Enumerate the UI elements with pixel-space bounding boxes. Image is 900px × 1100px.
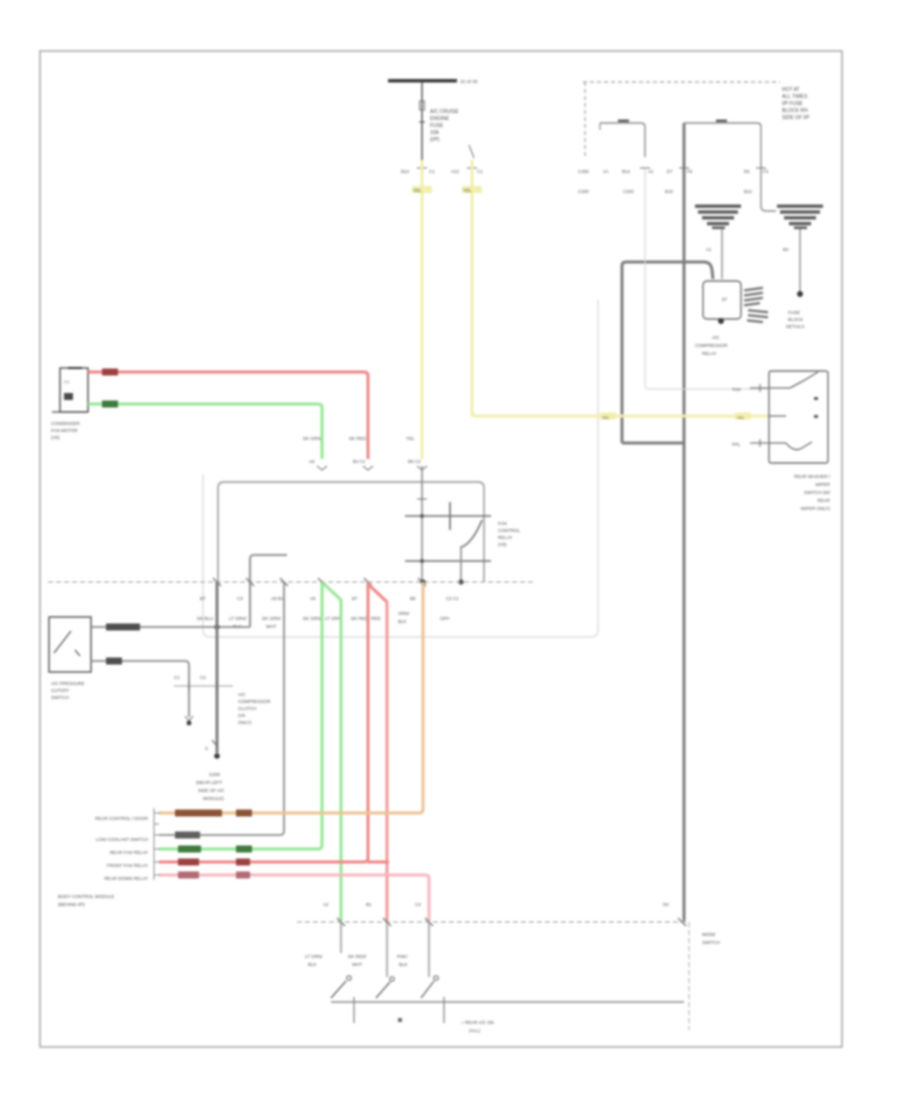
heater motor M1 box: [60, 368, 88, 412]
svg-text:ENGINE: ENGINE: [430, 116, 450, 122]
fuse F3 branch: [684, 123, 761, 157]
wire 1 riser: [250, 555, 287, 627]
bottom connector pin labels: [323, 902, 669, 907]
svg-text:A8 B1: A8 B1: [271, 596, 284, 601]
svg-text:S: S: [205, 746, 208, 751]
YEL label on wire 1: [412, 186, 432, 193]
compressor label: [238, 692, 271, 725]
relay contact rail 1: [405, 515, 491, 517]
svg-text:BLK: BLK: [399, 962, 408, 967]
green jog at C200: [324, 584, 341, 600]
svg-text:REAR: REAR: [817, 498, 830, 503]
svg-text:YEL: YEL: [737, 415, 745, 420]
BCM connector bracket: [153, 808, 155, 880]
thick gray trunk wire (vertical, full height): [683, 123, 686, 921]
svg-text:= REAR A/C ON: = REAR A/C ON: [461, 1020, 494, 1025]
svg-text:DETAILS: DETAILS: [786, 324, 804, 329]
row2 label block: [175, 832, 200, 839]
thick gray elbow wire to relay: [622, 262, 713, 443]
switch arms: [331, 981, 434, 998]
svg-text:WHT: WHT: [266, 624, 276, 629]
svg-text:C200: C200: [578, 189, 589, 194]
orange wire C200 to row1: [159, 582, 423, 813]
fuse F1 label: [430, 109, 459, 143]
svg-text:YEL: YEL: [602, 415, 610, 420]
stub tick: [759, 384, 761, 392]
svg-text:FUSE: FUSE: [430, 123, 444, 129]
svg-text:FUSE: FUSE: [788, 310, 800, 315]
svg-text:WIPER: WIPER: [815, 482, 831, 487]
svg-text:LOW COOLANT SWITCH: LOW COOLANT SWITCH: [96, 837, 148, 842]
wire 2 arrow: [185, 716, 193, 721]
svg-text:C3: C3: [415, 902, 421, 907]
svg-text:FRONT FAN RELAY: FRONT FAN RELAY: [107, 863, 148, 868]
stub tick: [759, 439, 761, 447]
svg-text:G200: G200: [209, 772, 221, 777]
YEL label on horizontal wire: [600, 413, 616, 420]
svg-text:D4: D4: [663, 902, 669, 907]
bottom wire color labels: [305, 954, 408, 967]
svg-text:CONDENSER: CONDENSER: [51, 421, 81, 426]
svg-text:B14: B14: [401, 169, 410, 174]
svg-text:A12: A12: [451, 169, 460, 174]
relay coil bar: [449, 502, 451, 530]
switch assembly right edge: [688, 922, 690, 1030]
svg-text:C2: C2: [200, 675, 206, 680]
wire 2 terminal dot: [187, 721, 192, 726]
svg-text:DK BLU: DK BLU: [197, 616, 213, 621]
motor pin tick: [68, 367, 82, 369]
wire to splice S1: [761, 157, 776, 211]
svg-text:(+): (+): [64, 379, 70, 384]
motor label: [51, 421, 81, 440]
internal wire L to pin: [250, 555, 287, 627]
fuse F2 branch: [600, 123, 645, 157]
svg-text:CLUTCH: CLUTCH: [238, 706, 256, 711]
svg-text:ORN/: ORN/: [398, 611, 410, 616]
svg-text:MODE: MODE: [702, 932, 716, 937]
svg-text:HOT AT: HOT AT: [782, 87, 800, 93]
connector ticks on yellow wires: [417, 167, 427, 169]
bottom connector ticks: [337, 918, 686, 926]
connector ticks below fuse block: [640, 167, 650, 169]
thick elbow joins trunk: [622, 442, 684, 445]
red jog at C200: [370, 586, 387, 602]
hatched accessory block 1: [744, 287, 763, 307]
splice pack S2 (trapezoid): [777, 205, 823, 230]
svg-text:A2: A2: [323, 902, 329, 907]
svg-text:I/P FUSE: I/P FUSE: [782, 101, 803, 107]
A/C switch arm: [54, 631, 71, 653]
svg-text:LT GRN/: LT GRN/: [305, 954, 323, 959]
connector C2 ticks: [188, 682, 190, 690]
green wire 1 C200 to row3: [159, 582, 322, 849]
svg-text:C202: C202: [623, 189, 634, 194]
faint component outline right: [645, 168, 768, 389]
ground dot G200: [214, 753, 220, 759]
svg-text:10A: 10A: [430, 130, 440, 136]
relay contact rail 2: [405, 560, 491, 562]
fuse block pin labels: [578, 169, 769, 194]
fuse F3 value tick: [716, 120, 727, 123]
YEL label on wire 2: [462, 186, 482, 193]
junction dot wire1/trunk: [214, 624, 219, 629]
svg-text:DK GRN: DK GRN: [303, 436, 321, 441]
C200 pin labels: [200, 596, 459, 601]
wire tick: [417, 498, 427, 500]
svg-text:DK GRN/: DK GRN/: [262, 616, 282, 621]
junction rail1/wire: [420, 514, 424, 518]
row5 label blocks: [178, 872, 199, 879]
svg-text:BLK: BLK: [398, 619, 407, 624]
ground arrow on trunk: [212, 740, 217, 746]
svg-text:REAR FAN RELAY: REAR FAN RELAY: [110, 850, 148, 855]
svg-text:SIDE OF A/C: SIDE OF A/C: [198, 788, 225, 793]
svg-text:REAR WASHER /: REAR WASHER /: [794, 474, 831, 479]
gray wire C200 to BCM row2: [159, 582, 284, 835]
svg-text:1A: 1A: [603, 169, 609, 174]
svg-text:(NEAR LEFT: (NEAR LEFT: [196, 780, 223, 785]
svg-text:B12: B12: [744, 189, 753, 194]
GRY label block: [106, 658, 122, 665]
svg-text:ONLY): ONLY): [238, 720, 252, 725]
svg-text:CUTOFF: CUTOFF: [51, 688, 69, 693]
wire S1 to relay: [721, 229, 723, 279]
svg-text:SWITCH: SWITCH: [51, 695, 69, 700]
thick gray trunk lower: [216, 582, 219, 753]
connector C2 line: [174, 685, 233, 687]
A/C switch label: [51, 681, 85, 700]
svg-text:ALL TIMES: ALL TIMES: [782, 94, 808, 100]
hot-at-all-times bus bar: [388, 79, 457, 83]
svg-text:A1: A1: [648, 169, 654, 174]
svg-text:A/C: A/C: [238, 692, 246, 697]
svg-text:REAR DOWN RELAY: REAR DOWN RELAY: [104, 876, 148, 881]
svg-text:E7: E7: [667, 169, 673, 174]
motor base line: [52, 411, 86, 413]
wire 1 from A/C switch: [91, 626, 250, 628]
relay U1 box: [703, 281, 741, 319]
wire S2 down: [799, 229, 801, 291]
svg-text:YEL: YEL: [463, 188, 472, 193]
svg-text:BODY CONTROL MODULE: BODY CONTROL MODULE: [58, 894, 114, 899]
fuse F1: [420, 101, 425, 110]
svg-text:(BEHIND I/P): (BEHIND I/P): [58, 902, 85, 907]
wire from bus to fuse: [421, 82, 423, 160]
yellow wire 2 (to blower switch): [471, 160, 474, 416]
svg-text:B6: B6: [410, 596, 416, 601]
svg-text:RELAY: RELAY: [702, 351, 716, 356]
red row4 extension to red wire 2: [368, 861, 389, 864]
svg-text:PPL: PPL: [732, 442, 741, 447]
svg-text:C1: C1: [429, 169, 435, 174]
svg-text:BLOCK RH: BLOCK RH: [782, 108, 808, 114]
svg-text:(I/P): (I/P): [430, 137, 440, 143]
BCM name label: [58, 894, 114, 907]
fuse F1 tick: [419, 121, 425, 123]
red wire horizontal: [88, 372, 368, 459]
svg-text:B10: B10: [665, 189, 674, 194]
BCM row labels: [95, 816, 149, 881]
red wire 2 down: [386, 601, 389, 921]
svg-text:YEL: YEL: [406, 436, 415, 441]
wire color labels below C200: [197, 611, 450, 629]
YEL label near switch: [735, 413, 751, 420]
svg-text:GRY: GRY: [440, 616, 450, 621]
I/P fuse block dashed outline: [583, 82, 780, 157]
svg-text:YEL: YEL: [413, 188, 422, 193]
svg-text:SWITCH (W/: SWITCH (W/: [804, 490, 831, 495]
svg-text:SIDE OF I/P: SIDE OF I/P: [782, 115, 810, 121]
svg-text:REAR CONTROL / DOOR: REAR CONTROL / DOOR: [95, 816, 149, 821]
svg-text:COMPRESSOR: COMPRESSOR: [695, 343, 728, 348]
yellow wire horizontal to blower switch: [472, 412, 769, 416]
bottom connector dashed line: [297, 921, 689, 923]
fuse F2 value tick: [618, 120, 629, 123]
splice pack S1 (trapezoid): [695, 205, 741, 230]
svg-text:(V6): (V6): [51, 435, 60, 440]
row4 label blocks: [178, 859, 199, 866]
svg-text:RELAY: RELAY: [498, 535, 512, 540]
bottom wire stubs: [340, 922, 342, 953]
svg-text:WIPER ONLY): WIPER ONLY): [801, 506, 831, 511]
A/C switch contact tick: [75, 650, 80, 656]
svg-text:WHT: WHT: [352, 962, 362, 967]
switch contact dots: [814, 397, 818, 400]
switch stub wire bottom: [750, 442, 769, 444]
blower switch label: [794, 474, 831, 511]
junction rail2/wire: [420, 559, 424, 563]
switch stub wire top: [750, 387, 769, 389]
svg-text:F6: F6: [687, 169, 693, 174]
svg-text:15 10 30: 15 10 30: [460, 79, 478, 84]
green wire horizontal: [88, 404, 322, 459]
relay terminal dot: [718, 318, 724, 324]
svg-text:BLK: BLK: [308, 962, 317, 967]
motor symbol: [64, 393, 73, 400]
switch contact circles: [347, 976, 351, 980]
relay label: [498, 521, 520, 547]
connector C200 dashed line: [48, 581, 536, 583]
svg-text:TAN: TAN: [732, 387, 741, 392]
assembly label: [702, 932, 720, 945]
connector C1 tail above yellow wire 2: [469, 145, 474, 158]
svg-text:87: 87: [722, 297, 728, 302]
svg-text:PNK/: PNK/: [397, 954, 408, 959]
C200 junction ticks: [213, 578, 426, 586]
relay name label: [695, 335, 728, 356]
A/C switch box: [49, 617, 91, 672]
svg-text:DK RED: DK RED: [349, 436, 367, 441]
connector C100 arrows: [317, 466, 327, 470]
bus ticks: [353, 997, 355, 1023]
center module outline: [218, 482, 484, 582]
svg-text:C1: C1: [477, 169, 483, 174]
svg-text:(V6: (V6: [238, 713, 246, 718]
junction dot: [458, 579, 463, 584]
bus bar bottom: [331, 1001, 684, 1003]
svg-text:DK RED/: DK RED/: [348, 954, 367, 959]
junction at C200 orange: [420, 579, 425, 584]
row1 label block ORN: [175, 810, 222, 817]
red wire 1 C200 to row4: [159, 582, 368, 862]
svg-text:COMPRESSOR: COMPRESSOR: [238, 699, 271, 704]
svg-text:C2 C1: C2 C1: [446, 596, 459, 601]
terminal dot: [797, 291, 803, 297]
svg-text:RED: RED: [371, 616, 381, 621]
svg-text:(V6): (V6): [498, 542, 507, 547]
GRN wire label block: [102, 401, 118, 408]
svg-text:A/C: A/C: [712, 335, 720, 340]
svg-text:DK GRN: DK GRN: [303, 616, 321, 621]
hatched accessory block 2: [747, 309, 768, 323]
svg-text:B7: B7: [352, 596, 358, 601]
svg-text:B4 C1: B4 C1: [353, 459, 366, 464]
wire 2 from A/C switch: [91, 661, 189, 717]
svg-text:(ALL): (ALL): [469, 1028, 481, 1033]
svg-text:LT GRN/: LT GRN/: [229, 616, 247, 621]
svg-text:MODULE): MODULE): [203, 796, 224, 801]
switch internals: [769, 372, 818, 450]
wire C100 to module: [421, 466, 423, 582]
fuse block label: [782, 87, 810, 121]
svg-text:B14: B14: [622, 169, 631, 174]
svg-text:C1: C1: [174, 675, 180, 680]
pink wire row5 down: [159, 875, 429, 921]
svg-text:C250: C250: [578, 169, 589, 174]
svg-text:B1: B1: [366, 902, 372, 907]
svg-text:A6: A6: [309, 459, 315, 464]
blower switch box: [769, 371, 828, 463]
RED wire label block: [102, 369, 118, 376]
not-used label: [786, 310, 804, 329]
svg-text:CONTROL: CONTROL: [498, 528, 520, 533]
svg-text:DK RED: DK RED: [351, 616, 369, 621]
svg-text:C3: C3: [237, 596, 243, 601]
svg-text:B7: B7: [200, 596, 206, 601]
svg-text:FAN MOTOR: FAN MOTOR: [51, 428, 78, 433]
ground G200 label: [196, 772, 225, 801]
svg-text:F4: F4: [763, 169, 769, 174]
svg-text:E5: E5: [744, 169, 750, 174]
BLK label block: [106, 624, 140, 631]
row3 label blocks: [178, 846, 201, 853]
svg-text:A5: A5: [310, 596, 316, 601]
svg-text:A1: A1: [706, 247, 712, 252]
connector row pin labels: [401, 169, 483, 174]
green wire 2 down: [340, 599, 343, 921]
relay switch arm: [462, 520, 482, 547]
svg-text:BLOCK: BLOCK: [788, 317, 803, 322]
tick dot: [398, 1018, 402, 1022]
faint inner outline: [203, 300, 598, 637]
svg-text:SWITCH: SWITCH: [702, 940, 720, 945]
svg-text:B6 C2: B6 C2: [408, 459, 421, 464]
svg-text:FAN: FAN: [498, 521, 507, 526]
svg-text:A/C PRESSURE: A/C PRESSURE: [51, 681, 85, 686]
svg-text:LT GRN: LT GRN: [325, 616, 341, 621]
yellow wire 1 (fuse to C100): [421, 160, 424, 459]
svg-text:B3: B3: [783, 247, 789, 252]
wire arm to C200: [460, 546, 462, 582]
svg-text:A/C CRUISE: A/C CRUISE: [430, 109, 459, 115]
